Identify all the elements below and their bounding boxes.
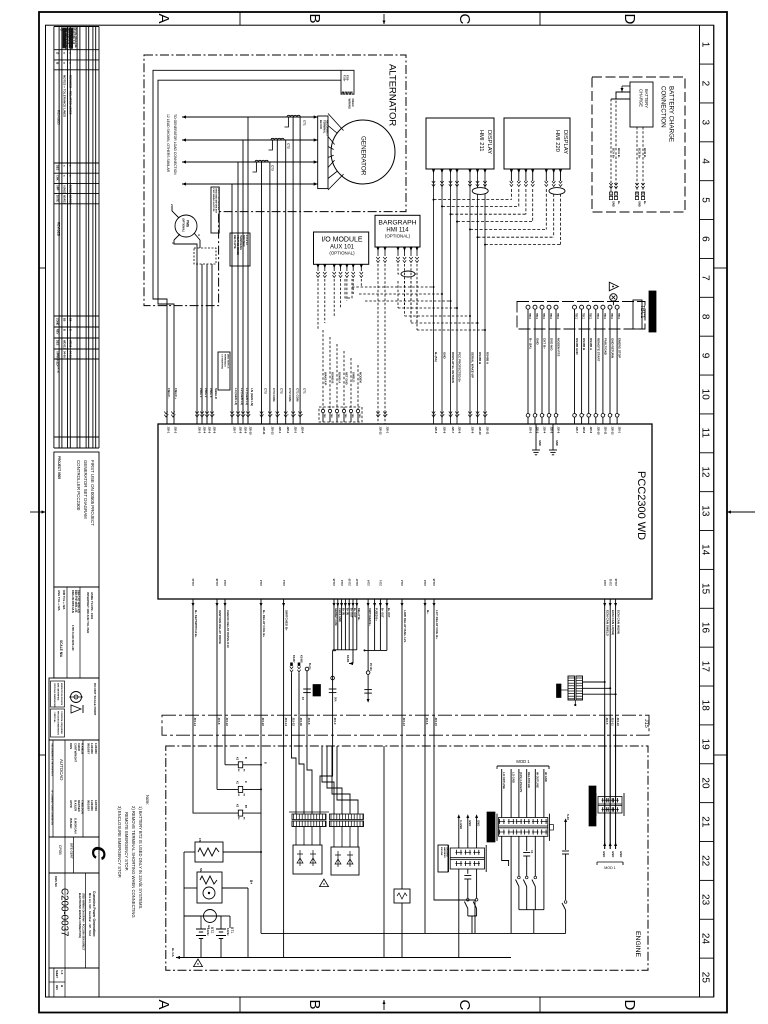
svg-text:J20-9: J20-9 — [589, 427, 593, 434]
svg-text:ZONE: ZONE — [56, 318, 60, 325]
svg-text:GND: GND — [477, 820, 481, 826]
svg-text:CHKD: CHKD — [77, 743, 81, 751]
svg-text:GROUND: GROUND — [446, 847, 448, 857]
svg-text:VOLTAGE SENSE: VOLTAGE SENSE — [236, 235, 239, 255]
sensor box 2 — [331, 827, 359, 876]
PMG wires to controller — [174, 240, 212, 424]
contact trio MOD1 — [516, 876, 544, 933]
svg-text:AJM13: AJM13 — [63, 185, 67, 194]
svg-text:15: 15 — [700, 583, 711, 595]
PCC bottom mid bundle left subgroup — [333, 599, 361, 650]
svg-text:SHIELD: SHIELD — [214, 388, 218, 400]
svg-text:REVISED - RELATED LINES: REVISED - RELATED LINES — [69, 75, 73, 114]
svg-text:J20-2: J20-2 — [529, 427, 533, 434]
svg-text:05/16/97: 05/16/97 — [87, 743, 91, 754]
svg-text:J11-18: J11-18 — [216, 578, 219, 586]
svg-text:HMI 211: HMI 211 — [478, 130, 484, 151]
centre arrow bottom — [383, 1000, 385, 1010]
title block drawing number C200-0037 — [49, 873, 99, 968]
svg-text:B+: B+ — [426, 610, 430, 614]
svg-text:DVD N/O: DVD N/O — [550, 338, 554, 351]
svg-text:RS485 A: RS485 A — [486, 352, 490, 365]
svg-text:ARE IDENTIFIED: ARE IDENTIFIED — [57, 683, 60, 701]
svg-text:J15-8: J15-8 — [217, 718, 221, 725]
label BATTERY CHARGE CONNECTION — [660, 86, 675, 142]
svg-text:1) BATTERY BT2 IS USED ONLY IN: 1) BATTERY BT2 IS USED ONLY IN 24Vdc SYS… — [138, 806, 143, 909]
svg-text:B+ OUT: B+ OUT — [349, 608, 353, 618]
svg-text:J20-8: J20-8 — [582, 427, 586, 434]
svg-text:J20-10: J20-10 — [596, 427, 600, 436]
svg-text:D: D — [621, 14, 638, 25]
svg-text:GENERATOR: GENERATOR — [360, 136, 367, 176]
svg-text:(OPTIONAL): (OPTIONAL) — [385, 234, 411, 239]
svg-text:C: C — [456, 14, 473, 25]
svg-text:B+ GA: B+ GA — [171, 948, 175, 957]
svg-text:GND: GND — [619, 851, 623, 857]
starter motor SM — [184, 868, 253, 903]
ECM tap stub wires — [583, 681, 617, 695]
label box PMG wiring — [211, 187, 220, 233]
svg-text:C-GND: C-GND — [459, 820, 463, 829]
svg-text:DIM TOL + N/A: DIM TOL + N/A — [62, 590, 66, 609]
ECM tap black label — [557, 684, 569, 698]
MOD1 lower wiring — [502, 836, 544, 933]
svg-text:CONNECTION: CONNECTION — [660, 86, 667, 128]
relay output wire B+ coil — [223, 735, 262, 933]
svg-text:PMG 1: PMG 1 — [199, 388, 203, 398]
ECM gnd labels — [597, 851, 623, 870]
svg-text:TBC1: TBC1 — [528, 313, 531, 320]
svg-text:1700-TAUR 4100-A/D: 1700-TAUR 4100-A/D — [71, 625, 75, 651]
svg-text:16: 16 — [700, 622, 711, 634]
title block logo cell with Cummins C logo — [49, 837, 99, 873]
PCC top edge tiny labels above — [166, 414, 619, 416]
svg-text:PMG 3: PMG 3 — [209, 388, 213, 398]
svg-text:J20-1: J20-1 — [278, 427, 282, 434]
S-40 branch — [562, 814, 570, 933]
battery charger box — [630, 82, 653, 127]
current transformer CT1 — [285, 115, 307, 127]
svg-text:J20-4: J20-4 — [543, 427, 547, 434]
svg-text:J11-4: J11-4 — [283, 579, 286, 586]
second bus wire — [261, 932, 566, 934]
svg-text:4: 4 — [700, 158, 711, 164]
svg-text:F2 B-: F2 B- — [346, 75, 349, 81]
svg-text:12/07/09: 12/07/09 — [94, 800, 98, 811]
svg-text:J20-9: J20-9 — [471, 427, 475, 434]
TBC1 wire labels — [529, 338, 622, 362]
svg-text:J15-14: J15-14 — [193, 718, 197, 727]
svg-text:J20-6: J20-6 — [443, 427, 447, 434]
svg-text:J11-14: J11-14 — [192, 578, 195, 586]
centre arrow left — [30, 511, 46, 513]
svg-text:WAKE-UP: WAKE-UP — [324, 372, 328, 385]
svg-text:J15-8: J15-8 — [307, 718, 311, 725]
svg-text:J20-10: J20-10 — [249, 427, 253, 436]
TB1 dashed terminal row — [319, 407, 362, 422]
svg-text:B+(5A): B+(5A) — [434, 352, 438, 362]
svg-text:J20-8: J20-8 — [458, 427, 462, 434]
svg-text:TERM DESIG: TERM DESIG — [239, 235, 242, 250]
grid zone ticks top — [239, 12, 241, 25]
svg-text:J15-16: J15-16 — [616, 718, 620, 727]
battery charger bottom pin wires — [637, 127, 643, 195]
svg-text:WDS12: WDS12 — [63, 340, 67, 349]
svg-text:B+ IN: B+ IN — [346, 608, 350, 615]
svg-text:ASME Y14.5M - 1994: ASME Y14.5M - 1994 — [90, 592, 94, 620]
svg-text:J20-7: J20-7 — [575, 427, 579, 434]
svg-text:J15-22: J15-22 — [292, 718, 296, 727]
left sensor strip — [449, 845, 487, 872]
svg-text:LCT RELAY COIL B+: LCT RELAY COIL B+ — [435, 610, 439, 639]
warning triangle above TBC1 — [609, 282, 618, 291]
svg-text:J15-5: J15-5 — [605, 718, 609, 725]
battery charge wire terminals — [609, 183, 644, 200]
display HMI220 staircase wires — [433, 169, 563, 246]
svg-text:RS485 B: RS485 B — [582, 338, 586, 351]
svg-text:DATE: DATE — [57, 365, 61, 373]
svg-text:TBC1: TBC1 — [535, 313, 538, 320]
svg-text:J15-16: J15-16 — [225, 718, 229, 727]
svg-text:24: 24 — [700, 933, 711, 945]
PMG G2 circle — [175, 215, 197, 237]
svg-text:BCB B+: BCB B+ — [638, 148, 642, 159]
svg-text:J20-5: J20-5 — [208, 427, 212, 434]
svg-text:J20-12: J20-12 — [270, 427, 274, 436]
svg-text:J11-1: J11-1 — [380, 579, 383, 586]
TBC1 terminals — [526, 305, 620, 424]
svg-text:TO GENERATOR LOAD CONNECTION: TO GENERATOR LOAD CONNECTION — [173, 114, 177, 175]
reconnect terminal block — [318, 116, 328, 189]
svg-text:B: B — [69, 329, 73, 331]
svg-text:2) REMOVE TERMINAL SHORTING WH: 2) REMOVE TERMINAL SHORTING WHEN CONNECT… — [131, 806, 136, 918]
svg-text:L3 (GEN L3): L3 (GEN L3) — [234, 388, 238, 405]
svg-text:J20-8: J20-8 — [239, 427, 243, 434]
dashed staircase IO-bargraph to display bundle — [352, 281, 486, 331]
display HMI211 pin arrows — [432, 170, 487, 174]
battery BT1 — [216, 916, 234, 958]
svg-text:GND: GND — [555, 440, 559, 446]
revision table header text — [56, 28, 78, 126]
svg-text:REV: REV — [56, 329, 60, 335]
svg-text:J11-15: J11-15 — [433, 578, 436, 586]
svg-text:J20-1: J20-1 — [386, 427, 390, 434]
svg-text:B+ RELAY COIL B+: B+ RELAY COIL B+ — [262, 610, 266, 638]
svg-text:SCALE N/A: SCALE N/A — [59, 640, 63, 658]
svg-text:BCA B+: BCA B+ — [612, 148, 616, 159]
svg-text:WD13: WD13 — [69, 340, 73, 348]
svg-text:PROCESS DIMENSION: PROCESS DIMENSION — [57, 711, 59, 735]
svg-text:B.KILER: B.KILER — [74, 800, 78, 811]
svg-text:B+: B+ — [643, 201, 647, 205]
svg-text:B+: B+ — [249, 880, 253, 884]
svg-text:REVISED: REVISED — [57, 110, 61, 125]
PCC top edge connector chevrons — [164, 412, 619, 418]
svg-text:REVISED: REVISED — [57, 222, 61, 237]
svg-text:SM: SM — [199, 868, 203, 873]
svg-text:GND: GND — [538, 440, 542, 446]
svg-text:BLOCK: BLOCK — [319, 120, 323, 129]
grid letters bottom A B C D — [155, 1000, 638, 1011]
svg-text:DATE: DATE — [56, 195, 60, 202]
svg-text:A: A — [155, 1000, 172, 1010]
IO module AUX 101 box — [314, 232, 369, 264]
svg-text:RS485 B: RS485 B — [331, 372, 335, 383]
svg-text:J11-2: J11-2 — [341, 579, 344, 586]
svg-text:SWITCHED B+: SWITCHED B+ — [368, 608, 372, 626]
J15 crossing labels — [193, 715, 620, 735]
PCC bottom pin arrowheads — [192, 603, 618, 607]
svg-text:REMOTE START: REMOTE START — [596, 338, 600, 362]
svg-text:PMG 2: PMG 2 — [204, 388, 208, 398]
svg-text:1: 1 — [700, 42, 711, 48]
left sensor strip label box — [438, 845, 448, 872]
svg-text:J11-11: J11-11 — [609, 578, 612, 586]
svg-text:- CRITICAL -: - CRITICAL - — [53, 711, 56, 724]
svg-text:J20-3: J20-3 — [198, 427, 202, 434]
svg-text:SITE CERT: SITE CERT — [70, 843, 74, 859]
svg-text:J11-3: J11-3 — [401, 579, 404, 586]
svg-text:B: B — [264, 762, 267, 764]
svg-text:B5: B5 — [63, 318, 67, 322]
svg-text:GND: GND — [468, 820, 472, 826]
capacitor symbol MOD1 — [523, 850, 534, 876]
svg-text:J11-15: J11-15 — [333, 578, 336, 586]
svg-text:LO OUTLINE: LO OUTLINE — [502, 772, 506, 789]
engine left feeder wires — [184, 852, 248, 958]
CT lead wires — [262, 117, 301, 424]
svg-text:8: 8 — [700, 314, 711, 320]
svg-text:OF CUMMINS POWER GENERATION: OF CUMMINS POWER GENERATION — [51, 790, 54, 825]
centre arrow top — [383, 14, 385, 24]
PMG lead stubs — [170, 204, 201, 244]
svg-text:INSPECTION POINTS: INSPECTION POINTS — [60, 683, 62, 706]
right band zone tick — [714, 267, 727, 269]
svg-text:CT1: CT1 — [303, 120, 307, 126]
display HMI 211 box — [426, 118, 494, 169]
field wiring connector — [341, 70, 355, 109]
svg-text:TBC1: TBC1 — [596, 313, 599, 320]
dashed wires into TB1 — [323, 330, 358, 409]
svg-text:6/14/13: 6/14/13 — [63, 195, 67, 204]
svg-text:B+ OUT: B+ OUT — [387, 608, 391, 618]
label TBC1 — [633, 300, 645, 329]
svg-text:DES: DES — [56, 165, 60, 171]
svg-text:J11-2: J11-2 — [260, 579, 263, 586]
svg-text:18: 18 — [700, 700, 711, 712]
svg-text:Mns Jct, 310 - Guardian - SP -: Mns Jct, 310 - Guardian - SP - Stnd — [88, 893, 92, 936]
svg-text:SHEET: SHEET — [55, 970, 58, 979]
svg-text:BCA B-: BCA B- — [617, 148, 621, 158]
svg-text:D: D — [244, 781, 247, 783]
svg-text:DELTA WYE: DELTA WYE — [233, 235, 236, 249]
svg-text:J15-15: J15-15 — [434, 718, 438, 727]
PCC bottom inside pin labels — [192, 578, 618, 586]
svg-text:AUTOCAD: AUTOCAD — [59, 759, 64, 780]
TB1 wire labels — [324, 372, 363, 385]
svg-text:FIELD -: FIELD - — [167, 388, 171, 399]
engine terminal strip 1 — [289, 812, 329, 827]
svg-text:J20-1: J20-1 — [618, 427, 622, 434]
svg-text:6/14/13: 6/14/13 — [69, 195, 73, 204]
bargraph pins and wires — [376, 247, 418, 424]
PCC bottom mid bundle right subgroup — [364, 599, 392, 651]
svg-text:CHK: CHK — [56, 175, 60, 181]
alternator boundary dash-dot — [144, 55, 406, 306]
battery BT2 — [196, 916, 221, 958]
svg-text:J20-12: J20-12 — [611, 427, 615, 436]
svg-text:R.KIELB: R.KIELB — [81, 743, 85, 754]
svg-text:NET GND: NET GND — [345, 372, 349, 385]
svg-text:J20-4: J20-4 — [301, 427, 305, 434]
MOD1 wire labels — [502, 769, 548, 818]
svg-text:THIS DRAWING IS THE PROPERTY: THIS DRAWING IS THE PROPERTY — [51, 743, 54, 777]
svg-text:L1 (GEN L1): L1 (GEN L1) — [245, 388, 249, 405]
svg-text:J20-12: J20-12 — [379, 427, 383, 436]
svg-text:J11-17: J11-17 — [356, 578, 359, 586]
fuse F5 circuit — [364, 650, 372, 702]
svg-text:D: D — [621, 1000, 638, 1011]
svg-text:B: B — [63, 329, 67, 331]
current transformer CT3 — [253, 160, 275, 172]
connector circle above TBC1 — [610, 294, 617, 306]
wire labels display bundle — [434, 352, 490, 383]
svg-text:NOTES + TOLERANCE LINES: NOTES + TOLERANCE LINES — [63, 75, 67, 117]
svg-text:J20-7: J20-7 — [233, 427, 237, 434]
svg-text:ECM CAN LO(SH): ECM CAN LO(SH) — [611, 610, 615, 635]
svg-text:(CPL) LPG/LPV: (CPL) LPG/LPV — [519, 772, 523, 792]
notes text — [117, 795, 150, 918]
ECM wires in engine — [603, 735, 617, 849]
spare engine wire — [383, 746, 385, 958]
ECM connector strip — [596, 793, 624, 816]
off-sheet wire K1 feed — [290, 655, 295, 715]
svg-text:MODEM: MODEM — [359, 372, 363, 383]
relay fuse K2 row — [217, 735, 262, 797]
svg-text:3: 3 — [700, 119, 711, 125]
svg-text:5: 5 — [700, 197, 711, 203]
svg-text:12Vdc: 12Vdc — [206, 928, 210, 936]
bargraph HMI 114 box — [375, 215, 420, 247]
title block approvals box — [49, 740, 99, 837]
svg-text:CT2 COM: CT2 COM — [288, 388, 292, 402]
svg-text:B: B — [306, 14, 323, 24]
display HMI220 pin arrows — [510, 170, 562, 174]
field wire F1 — [153, 70, 341, 424]
svg-text:ENGINE: ENGINE — [634, 931, 641, 958]
svg-text:TBC1: TBC1 — [617, 313, 620, 320]
svg-text:J15-3: J15-3 — [333, 718, 337, 725]
svg-text:9: 9 — [700, 353, 711, 359]
svg-text:J20-11: J20-11 — [603, 427, 607, 435]
svg-text:CARTWRIGHT: CARTWRIGHT — [74, 743, 78, 762]
svg-text:04-13: 04-13 — [69, 351, 73, 358]
display HMI 220 box — [504, 118, 570, 169]
PCC bottom wire labels — [194, 610, 621, 648]
svg-text:B+ IN: B+ IN — [342, 608, 346, 615]
svg-text:(OPTIONAL): (OPTIONAL) — [329, 251, 355, 256]
PCC bottom wires long — [193, 599, 616, 958]
controller PCC2300 box — [158, 424, 652, 599]
svg-text:6: 6 — [700, 236, 711, 242]
svg-text:CT3: CT3 — [271, 165, 275, 171]
svg-text:J15-11: J15-11 — [610, 718, 614, 727]
title block sheet cells — [49, 968, 99, 997]
ECM tap terminal block — [568, 676, 583, 706]
svg-text:F1 B+: F1 B+ — [343, 75, 346, 82]
svg-text:ECM CAN HI(SH): ECM CAN HI(SH) — [617, 610, 621, 634]
svg-text:1-3: 1-3 — [60, 970, 64, 975]
svg-text:J20-10: J20-10 — [478, 427, 482, 436]
staircase wires to terminal strips — [292, 735, 359, 814]
logo Cummins C glyph — [87, 846, 108, 860]
inline connector oval on HMI220 wire — [549, 188, 565, 195]
MOD1 terminal strip — [497, 814, 553, 841]
svg-text:LO GND: LO GND — [511, 772, 515, 783]
svg-text:LOW DELAY FUEL LVL: LOW DELAY FUEL LVL — [403, 610, 407, 643]
svg-text:11/04/09: 11/04/09 — [94, 743, 98, 754]
svg-text:DISPLAY: DISPLAY — [486, 130, 492, 154]
svg-text:WIRING: WIRING — [348, 99, 352, 109]
grid letters top A B C D — [155, 14, 638, 25]
svg-text:J11-6: J11-6 — [224, 579, 227, 586]
svg-text:CONTROL REQUIRED: CONTROL REQUIRED — [60, 711, 62, 734]
J15 connector band — [162, 715, 649, 735]
svg-text:ALTERNATOR: ALTERNATOR — [387, 64, 398, 126]
svg-text:FUSED B+: FUSED B+ — [375, 608, 379, 621]
battery charge wire labels — [612, 148, 648, 207]
svg-text:PMG WIRING MUST BE: PMG WIRING MUST BE — [212, 189, 214, 213]
svg-text:J20-3: J20-3 — [294, 427, 298, 434]
svg-text:A: A — [155, 14, 172, 24]
svg-text:J15-13: J15-13 — [402, 718, 406, 727]
svg-text:BT1: BT1 — [230, 927, 234, 933]
current transformer CT2 — [269, 138, 291, 150]
generator load lines with left arrows — [182, 115, 318, 185]
svg-text:GND: GND — [638, 201, 642, 207]
svg-text:B+ OUT: B+ OUT — [353, 608, 357, 618]
svg-text:B+ OUT: B+ OUT — [381, 608, 385, 618]
svg-text:J15: J15 — [643, 719, 649, 728]
svg-text:DO NOT SCALE PRINT: DO NOT SCALE PRINT — [93, 683, 97, 716]
svg-text:HI GND: HI GND — [544, 772, 548, 782]
svg-text:J15-30: J15-30 — [299, 718, 303, 727]
title block revision table — [54, 27, 99, 449]
wire labels top-left bundle — [167, 388, 306, 406]
svg-text:F5 10A: F5 10A — [369, 663, 372, 671]
alternator charging circle — [184, 910, 230, 930]
svg-text:13: 13 — [700, 505, 711, 517]
svg-text:3) ENCLOSURE EMERGENCY STOP.: 3) ENCLOSURE EMERGENCY STOP. — [117, 806, 122, 878]
svg-text:T.NELSON: T.NELSON — [81, 800, 85, 814]
customer connection TBC1 box — [517, 302, 645, 330]
svg-text:J11-9: J11-9 — [367, 579, 370, 586]
svg-text:L2 (GEN L2): L2 (GEN L2) — [240, 388, 244, 405]
generator to block fan wedges — [328, 114, 344, 191]
svg-text:05/16/97: 05/16/97 — [87, 800, 91, 811]
engine ground bus B+ — [171, 948, 511, 959]
svg-text:C: C — [87, 846, 108, 860]
svg-text:J15-14: J15-14 — [284, 718, 288, 727]
svg-text:APVD: APVD — [69, 800, 73, 808]
svg-text:MODEM RTS: MODEM RTS — [557, 338, 561, 356]
warning triangle sensors — [320, 879, 329, 887]
svg-text:CT1: CT1 — [302, 388, 306, 394]
svg-text:ECM CAN SHIELD: ECM CAN SHIELD — [606, 610, 610, 637]
svg-text:ANG TOL + N/A: ANG TOL + N/A — [57, 590, 61, 611]
PMG connector box — [194, 248, 216, 264]
svg-text:10: 10 — [700, 389, 711, 401]
